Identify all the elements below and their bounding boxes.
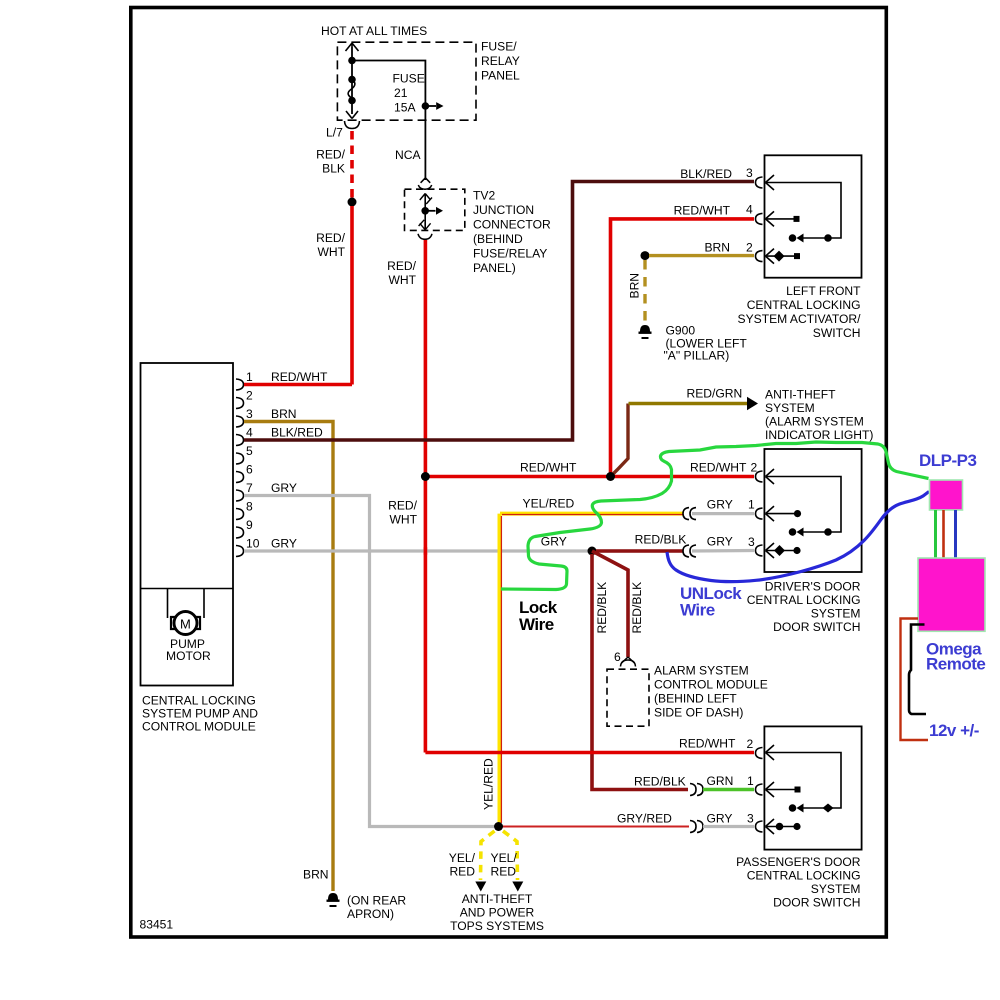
wire black from Omega — [909, 625, 926, 715]
wire BRN pin3 to rear apron ground — [244, 422, 333, 892]
wire RED/BLK diagonal to alarm module pin6 — [592, 551, 628, 657]
svg-text:YEL/: YEL/ — [449, 851, 476, 865]
svg-text:BLK: BLK — [322, 162, 345, 176]
svg-text:SYSTEM: SYSTEM — [811, 607, 861, 621]
svg-text:5: 5 — [246, 444, 253, 458]
svg-text:2: 2 — [751, 461, 758, 475]
ground (on rear apron) — [327, 894, 340, 907]
svg-text:7: 7 — [246, 481, 253, 495]
wire YEL/RED vertical — [497, 514, 501, 823]
svg-text:RED/BLK: RED/BLK — [635, 533, 687, 547]
svg-text:DOOR SWITCH: DOOR SWITCH — [773, 896, 860, 910]
wire RED/BLK junction to driver pin3 connector — [596, 549, 683, 553]
svg-text:21: 21 — [394, 86, 408, 100]
svg-text:BRN: BRN — [704, 241, 730, 255]
svg-text:WHT: WHT — [389, 513, 417, 527]
junction dot NCA arrow — [422, 102, 430, 110]
wire RED/WHT to left front pin4 — [611, 219, 755, 477]
splice dot RED/BLK to RED/WHT — [348, 198, 357, 207]
wire GRY to driver pin1 — [692, 512, 754, 515]
svg-text:3: 3 — [748, 535, 755, 549]
svg-text:Remote: Remote — [926, 655, 985, 674]
svg-text:BRN: BRN — [303, 868, 329, 882]
Omega Remote module magenta — [918, 558, 985, 631]
svg-text:1: 1 — [747, 774, 754, 788]
svg-text:12v +/-: 12v +/- — [929, 721, 979, 740]
connector cup below TV2 — [418, 234, 432, 240]
wire green DLP to Omega — [934, 510, 937, 558]
driver's door switch box — [764, 449, 861, 572]
svg-text:2: 2 — [246, 389, 253, 403]
svg-text:BRN: BRN — [628, 273, 642, 299]
svg-text:FUSE: FUSE — [393, 72, 425, 86]
wire GRY to passenger pin3 — [703, 825, 754, 828]
svg-text:SYSTEM: SYSTEM — [811, 882, 861, 896]
svg-text:3: 3 — [747, 812, 754, 826]
svg-text:DLP-P3: DLP-P3 — [919, 451, 977, 470]
wire GRY pin7 down to bottom junction — [244, 496, 494, 827]
svg-text:SWITCH: SWITCH — [813, 326, 861, 340]
contact dots driver — [824, 528, 832, 536]
svg-text:RED/: RED/ — [316, 231, 346, 245]
svg-text:CENTRAL LOCKING: CENTRAL LOCKING — [747, 869, 861, 883]
svg-text:BRN: BRN — [271, 407, 297, 421]
passenger switch internals — [766, 745, 842, 834]
svg-text:RED/BLK: RED/BLK — [630, 582, 644, 634]
svg-text:1: 1 — [246, 370, 253, 384]
svg-text:CONNECTOR: CONNECTOR — [473, 218, 551, 232]
TV2 internal arrows — [424, 194, 426, 230]
arrow down left — [475, 882, 486, 892]
wire BRN to left front pin2 — [649, 254, 754, 257]
wire NCA vertical to TV2 — [424, 120, 426, 180]
svg-text:RED/WHT: RED/WHT — [520, 461, 577, 475]
svg-text:L/7: L/7 — [326, 126, 343, 140]
wire RED/BLK vertical to passenger pin1 — [592, 554, 688, 790]
svg-text:BLK/RED: BLK/RED — [680, 167, 732, 181]
svg-text:4: 4 — [746, 202, 753, 216]
DLP-P3 module magenta — [930, 480, 963, 510]
connector flare + cup above TV2 — [421, 178, 431, 183]
svg-text:RED/GRN: RED/GRN — [687, 387, 743, 401]
pin arcs passenger (2,1,3) — [756, 748, 763, 833]
svg-text:CENTRAL LOCKING: CENTRAL LOCKING — [142, 694, 256, 708]
wire hot feed vertical in fuse panel — [351, 47, 353, 114]
svg-text:GRY: GRY — [271, 537, 297, 551]
wire RED/WHT main horizontal — [425, 475, 754, 479]
junction dot GRY/RED-BLK — [588, 547, 597, 556]
svg-text:JUNCTION: JUNCTION — [473, 203, 534, 217]
contact dots passenger — [823, 804, 834, 813]
svg-text:PANEL: PANEL — [481, 69, 520, 83]
svg-text:9: 9 — [246, 518, 253, 532]
svg-text:3: 3 — [746, 166, 753, 180]
svg-text:15A: 15A — [394, 101, 416, 115]
svg-text:MOTOR: MOTOR — [166, 649, 211, 663]
wire RED/WHT pin1 — [244, 383, 352, 387]
junction dot fuse top — [348, 57, 356, 65]
svg-text:GRN: GRN — [707, 774, 734, 788]
svg-text:SYSTEM ACTIVATOR/: SYSTEM ACTIVATOR/ — [738, 312, 862, 326]
arrow down to L/7 — [346, 111, 358, 119]
anti-theft branch: wire RED/GRN — [611, 404, 629, 477]
svg-text:INDICATOR LIGHT): INDICATOR LIGHT) — [765, 428, 873, 442]
pin arcs driver (2,1,3) — [756, 471, 763, 556]
svg-text:HOT AT ALL TIMES: HOT AT ALL TIMES — [321, 24, 427, 38]
svg-text:CENTRAL LOCKING: CENTRAL LOCKING — [747, 593, 861, 607]
svg-text:3: 3 — [246, 407, 253, 421]
junction connector TV2 dashed box — [405, 189, 465, 230]
ground G900 — [639, 326, 652, 339]
svg-text:YEL/RED: YEL/RED — [523, 497, 575, 511]
wire YEL/RED horizontal — [500, 512, 683, 516]
svg-text:RED/WHT: RED/WHT — [690, 461, 747, 475]
svg-text:SYSTEM: SYSTEM — [765, 401, 815, 415]
svg-text:GRY: GRY — [541, 535, 567, 549]
wire red DLP to Omega — [942, 510, 945, 558]
inline connector )) RED/BLK to GRN — [690, 784, 703, 796]
svg-text:WHT: WHT — [317, 245, 345, 259]
module pin connector arcs 1-10 — [236, 379, 244, 557]
svg-text:ANTI-THEFT: ANTI-THEFT — [765, 388, 836, 402]
svg-text:RELAY: RELAY — [481, 54, 520, 68]
svg-text:83451: 83451 — [140, 918, 174, 932]
connector cup alarm pin6 — [622, 657, 635, 663]
wire GRY/RED thin to connector — [502, 826, 689, 828]
left front activator/switch box — [765, 155, 862, 277]
svg-text:(ALARM SYSTEM: (ALARM SYSTEM — [765, 415, 864, 429]
svg-text:RED/BLK: RED/BLK — [634, 775, 686, 789]
svg-text:GRY: GRY — [271, 481, 297, 495]
motor feed lines — [168, 589, 205, 619]
svg-text:6: 6 — [246, 463, 253, 477]
wire GRY to driver pin3 — [692, 549, 754, 553]
connector L/7 cup — [345, 121, 360, 129]
svg-text:Wire: Wire — [680, 601, 715, 620]
module inner separator — [141, 588, 234, 590]
wire blue DLP to Omega — [954, 510, 957, 558]
alarm system control module dashed box — [607, 669, 649, 726]
junction dot at x425 — [421, 472, 430, 481]
svg-text:"A" PILLAR): "A" PILLAR) — [664, 349, 730, 363]
svg-text:ALARM SYSTEM: ALARM SYSTEM — [654, 664, 749, 678]
svg-text:1: 1 — [748, 498, 755, 512]
splice dot BRN — [641, 251, 650, 260]
freehand green lock wire — [501, 442, 929, 590]
svg-text:RED/WHT: RED/WHT — [271, 370, 328, 384]
svg-text:M: M — [180, 617, 191, 632]
wire red 12v from Omega — [901, 619, 929, 741]
svg-text:2: 2 — [746, 241, 753, 255]
svg-text:PASSENGER'S DOOR: PASSENGER'S DOOR — [736, 855, 861, 869]
svg-text:GRY/RED: GRY/RED — [617, 812, 672, 826]
svg-text:8: 8 — [246, 500, 253, 514]
svg-text:SIDE OF DASH): SIDE OF DASH) — [654, 706, 743, 720]
fuse F21 15A symbol — [348, 76, 356, 84]
svg-text:GRY: GRY — [707, 498, 733, 512]
svg-text:YEL/RED: YEL/RED — [482, 758, 496, 810]
svg-text:CENTRAL LOCKING: CENTRAL LOCKING — [747, 298, 861, 312]
svg-text:PANEL): PANEL) — [473, 261, 516, 275]
wire RED/WHT long vertical from TV2 — [424, 240, 428, 753]
inline connector (( RED/BLK to GRY — [683, 545, 696, 557]
svg-text:(BEHIND: (BEHIND — [473, 232, 523, 246]
wire RED/WHT over GRY crossing — [424, 547, 428, 554]
svg-text:NCA: NCA — [395, 148, 421, 162]
svg-text:6: 6 — [614, 650, 621, 664]
page frame border — [131, 8, 887, 938]
svg-text:BLK/RED: BLK/RED — [271, 426, 323, 440]
svg-text:YEL/: YEL/ — [491, 851, 518, 865]
svg-text:RED/WHT: RED/WHT — [679, 737, 736, 751]
svg-text:SYSTEM PUMP AND: SYSTEM PUMP AND — [142, 707, 258, 721]
wire GRN to passenger pin1 — [703, 788, 754, 791]
arrow up (hot at all times) — [346, 43, 359, 51]
svg-text:FUSE/RELAY: FUSE/RELAY — [473, 247, 547, 261]
junction dot at x610 — [606, 472, 615, 481]
fuse/relay panel dashed box — [337, 42, 476, 120]
arrow to anti-theft system — [747, 397, 758, 410]
central locking pump and control module box — [141, 363, 234, 686]
svg-text:Wire: Wire — [519, 615, 554, 634]
svg-text:4: 4 — [246, 426, 253, 440]
contact dots left front — [824, 234, 832, 242]
inline connector (( YEL/RED to GRY — [683, 508, 696, 520]
svg-text:2: 2 — [747, 737, 754, 751]
wire BRN dashed to G900 — [643, 260, 646, 322]
wire NCA branch horizontal — [352, 61, 425, 121]
svg-text:RED: RED — [491, 865, 517, 879]
svg-text:AND POWER: AND POWER — [460, 906, 535, 920]
svg-text:DRIVER'S DOOR: DRIVER'S DOOR — [765, 580, 861, 594]
svg-text:CONTROL MODULE: CONTROL MODULE — [654, 678, 768, 692]
svg-text:APRON): APRON) — [347, 907, 394, 921]
svg-text:WHT: WHT — [388, 273, 416, 287]
pin arcs left front (pins 3,4,2) — [756, 177, 763, 262]
wire BLK/RED pin4 up to left front pin3 — [244, 182, 754, 441]
svg-text:10: 10 — [246, 537, 260, 551]
svg-text:RED/BLK: RED/BLK — [595, 582, 609, 634]
svg-text:RED/WHT: RED/WHT — [674, 203, 731, 217]
svg-text:FUSE/: FUSE/ — [481, 40, 517, 54]
svg-text:G900: G900 — [666, 324, 696, 338]
svg-text:RED/: RED/ — [388, 499, 418, 513]
freehand blue unlock wire — [667, 492, 929, 582]
svg-text:(BEHIND LEFT: (BEHIND LEFT — [654, 692, 737, 706]
wire YEL/RED dashed arrow left — [481, 831, 495, 880]
bottom junction dot GRY/YEL-RED — [494, 822, 503, 831]
svg-text:GRY: GRY — [707, 812, 733, 826]
svg-text:LEFT FRONT: LEFT FRONT — [786, 284, 861, 298]
passenger's door switch box — [764, 726, 861, 849]
svg-text:GRY: GRY — [707, 535, 733, 549]
wire RED/WHT to passenger pin2 — [425, 751, 754, 755]
svg-text:TOPS SYSTEMS: TOPS SYSTEMS — [450, 919, 544, 933]
pump motor M circle — [174, 612, 197, 635]
left front switch internals — [766, 175, 842, 264]
svg-text:(ON REAR: (ON REAR — [347, 894, 406, 908]
wire RED/BLK dashed from L/7 — [350, 131, 354, 199]
inline connector )) GRY/RED to GRY — [690, 821, 703, 833]
svg-text:RED/: RED/ — [316, 148, 346, 162]
svg-text:DOOR SWITCH: DOOR SWITCH — [773, 620, 860, 634]
svg-text:RED/: RED/ — [387, 259, 417, 273]
wire GRY pin10 long horizontal — [244, 549, 684, 552]
driver switch internals — [766, 469, 842, 558]
svg-text:ANTI-THEFT: ANTI-THEFT — [462, 892, 533, 906]
svg-text:RED: RED — [449, 865, 475, 879]
svg-text:TV2: TV2 — [473, 189, 495, 203]
wire RED/WHT from splice down to pump pin1 — [350, 206, 354, 385]
wire YEL/RED dashed arrow right — [503, 831, 518, 880]
arrow right (other circuits) — [425, 105, 436, 107]
svg-text:CONTROL MODULE: CONTROL MODULE — [142, 720, 256, 734]
arrow down right — [512, 882, 523, 892]
